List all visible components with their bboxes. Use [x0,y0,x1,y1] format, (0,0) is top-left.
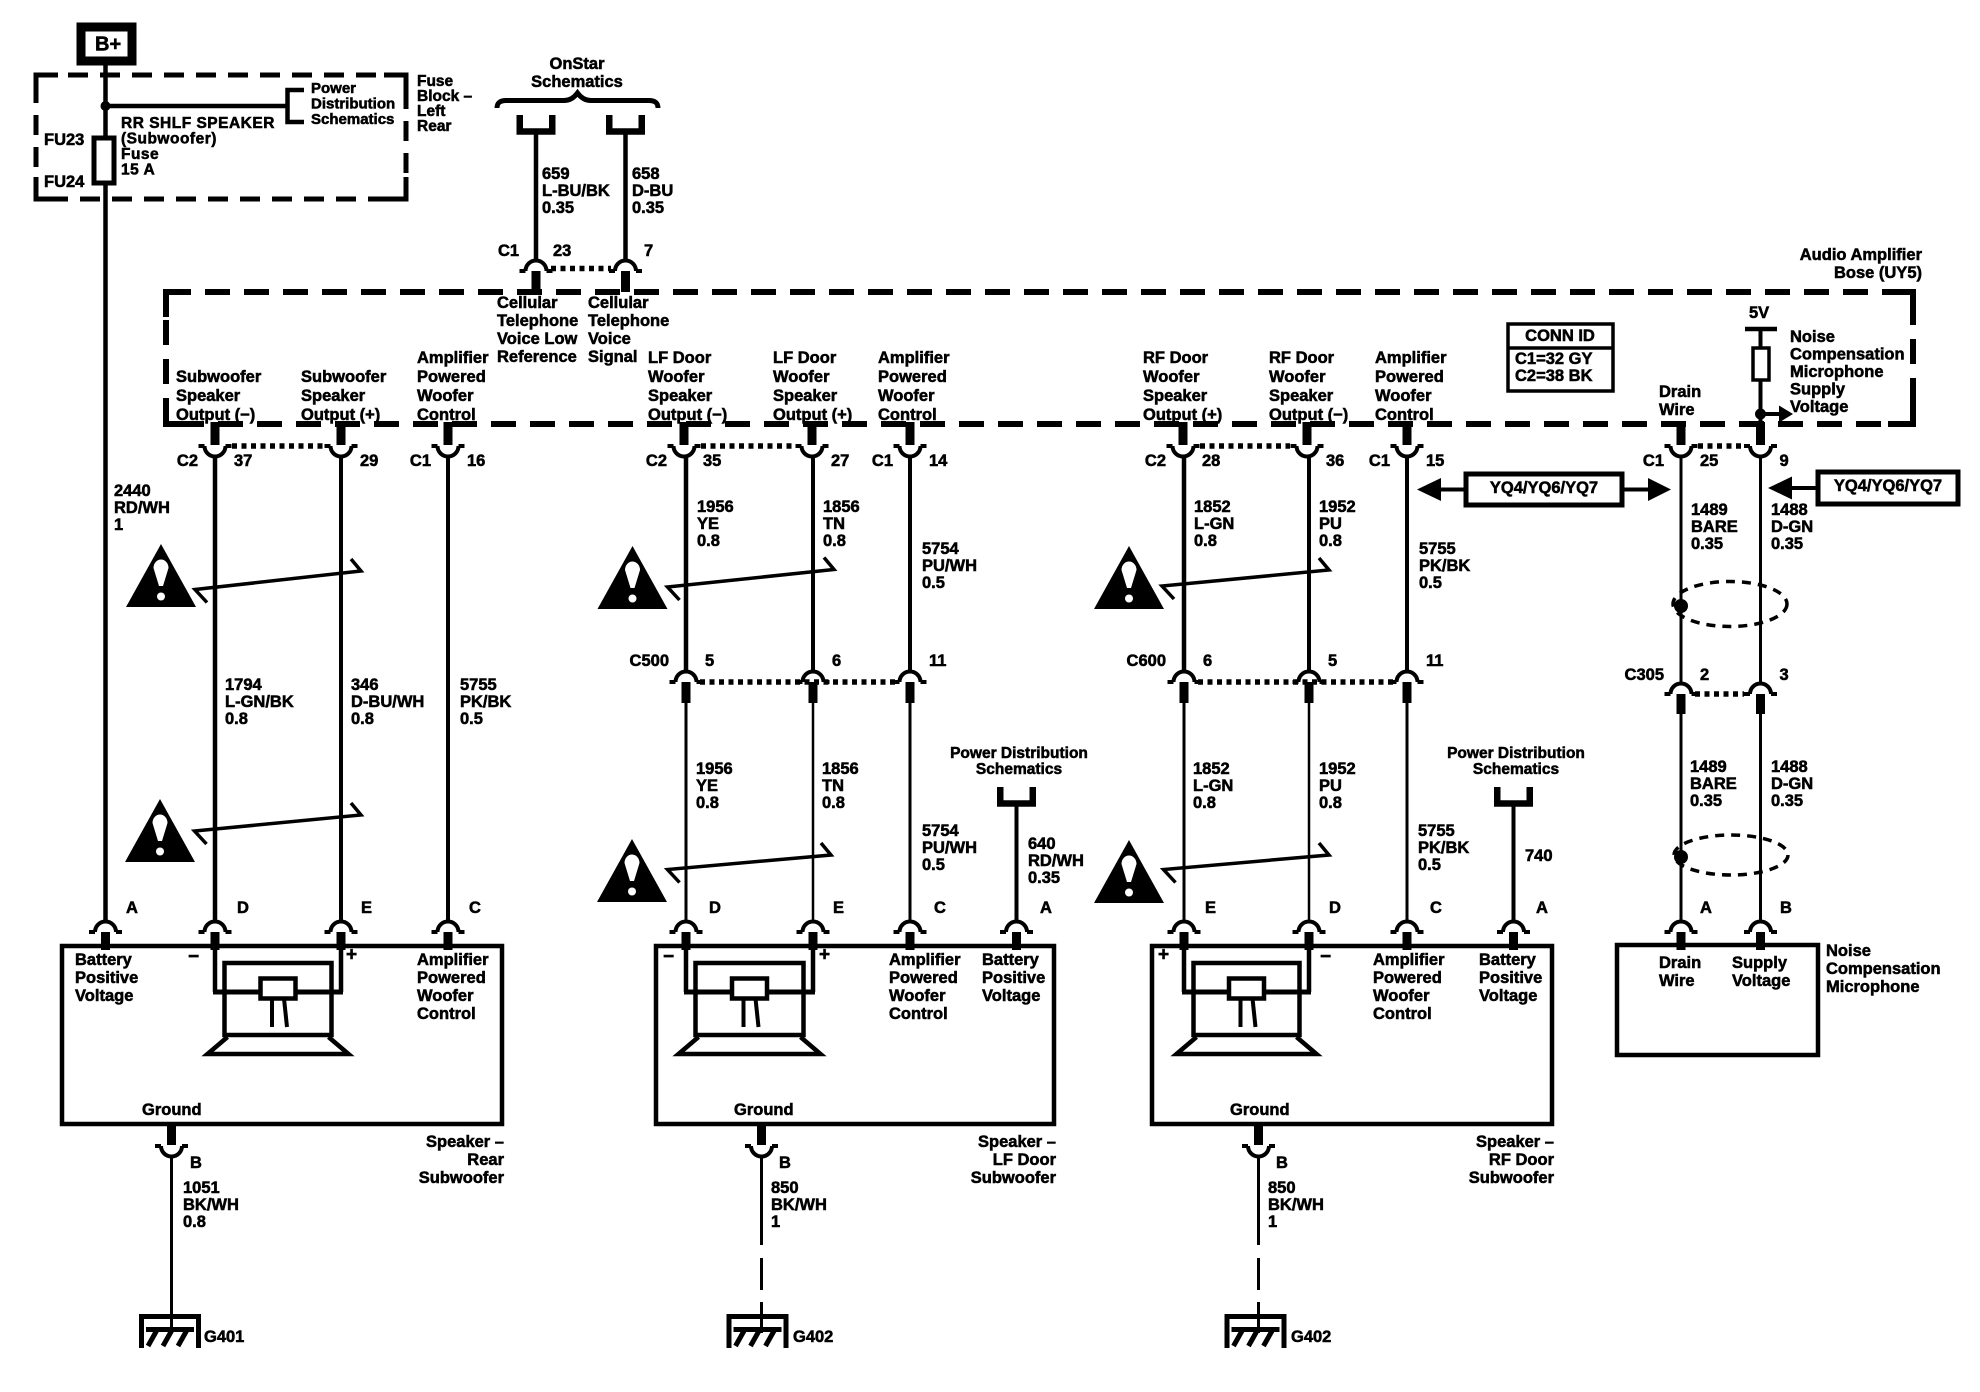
svg-text:Distribution: Distribution [311,95,395,112]
svg-text:Power: Power [311,80,356,97]
connector pin C at x1407 [1391,922,1424,932]
svg-text:Powered: Powered [878,368,947,386]
connector pin B rear ground [167,1124,176,1145]
svg-text:RR SHLF SPEAKER: RR SHLF SPEAKER [121,115,275,132]
junction dot drain upper [1674,599,1688,613]
wire C600-6 to speaker E [1183,703,1186,920]
connector pin 9 below amplifier [1756,422,1765,445]
svg-text:Woofer: Woofer [878,387,935,405]
svg-text:Voice Low: Voice Low [497,330,578,348]
svg-text:Voltage: Voltage [982,987,1040,1005]
svg-text:1794: 1794 [225,676,263,694]
wire 28 to C600-6 [1182,457,1187,672]
svg-text:Wire: Wire [1659,972,1695,990]
svg-text:0.5: 0.5 [1419,574,1442,592]
svg-text:Battery: Battery [75,951,133,969]
svg-text:1: 1 [1268,1213,1277,1231]
svg-text:D: D [1329,899,1341,917]
svg-text:0.8: 0.8 [697,532,720,550]
svg-text:640: 640 [1028,835,1056,853]
svg-text:1956: 1956 [697,498,734,516]
svg-text:−: − [663,947,674,968]
connector pin 15 below amplifier [1403,422,1412,445]
connector pin D at x215 [199,922,232,932]
connector pin 27 below amplifier [808,422,817,445]
svg-text:D-BU/WH: D-BU/WH [351,693,424,711]
connector pin A at x1513 [1497,922,1530,932]
svg-text:0.8: 0.8 [823,532,846,550]
ground G401 [142,1317,199,1349]
connector C305 pin 2 [1665,684,1698,695]
wire 29 to E [339,457,343,921]
svg-text:Speaker –: Speaker – [978,1133,1056,1151]
svg-text:Positive: Positive [982,969,1045,987]
svg-text:Output (−): Output (−) [176,406,255,424]
svg-text:Powered: Powered [1375,368,1444,386]
svg-text:Subwoofer: Subwoofer [971,1169,1057,1187]
svg-text:1952: 1952 [1319,498,1356,516]
svg-text:L-GN: L-GN [1194,515,1234,533]
wire C500-11 to speaker C [909,703,912,920]
warning triangle 1 [126,544,196,607]
connector pin 35 below amplifier [680,422,689,445]
svg-text:6: 6 [832,652,841,670]
svg-text:Output (+): Output (+) [773,406,852,424]
shield ellipse upper [1673,582,1787,627]
svg-text:1952: 1952 [1319,760,1356,778]
svg-text:E: E [361,899,372,917]
connector link dashes C1 25-9 [1698,443,1744,449]
svg-text:0.5: 0.5 [922,856,945,874]
off-page terminal power distribution RF [1497,787,1530,804]
svg-text:Signal: Signal [588,348,638,366]
connector pin 28 below amplifier [1179,422,1188,445]
wire 740 [1512,803,1516,920]
svg-text:C1: C1 [410,452,431,470]
connector C600 pin 6 [1168,672,1201,682]
connector link dashes C305 [1695,691,1744,697]
CONN ID table [1508,324,1613,391]
svg-text:LF Door: LF Door [993,1151,1057,1169]
svg-text:7: 7 [644,242,653,260]
svg-text:1489: 1489 [1691,501,1728,519]
svg-text:G401: G401 [204,1328,244,1346]
svg-text:Schematics: Schematics [976,761,1062,778]
svg-text:2: 2 [1700,666,1709,684]
svg-text:D: D [237,899,249,917]
connector pin B RF ground [1254,1124,1263,1145]
svg-text:Bose (UY5): Bose (UY5) [1834,264,1922,282]
svg-text:0.35: 0.35 [1771,535,1803,553]
svg-text:Drain: Drain [1659,383,1701,401]
wire 850 BK/WH (LF) [760,1157,763,1245]
svg-text:C305: C305 [1625,666,1664,684]
arrow YQ box1 right [1622,488,1650,492]
wire 659 L-BU/BK [534,131,539,259]
off-page reference bracket Power Distribution [288,90,305,122]
svg-text:Rear: Rear [467,1151,504,1169]
svg-text:1856: 1856 [822,760,859,778]
ground G402 (RF) [1227,1317,1284,1349]
connector pin D at x1309 [1293,922,1326,932]
svg-text:0.8: 0.8 [351,710,374,728]
wire 14 to C500-11 [908,457,912,672]
svg-text:1852: 1852 [1194,498,1231,516]
svg-text:BK/WH: BK/WH [1268,1196,1324,1214]
svg-text:L-GN: L-GN [1193,777,1233,795]
wire 16 to C [446,457,450,921]
svg-text:Ground: Ground [142,1101,202,1119]
svg-text:RF Door: RF Door [1489,1151,1555,1169]
svg-text:Voltage: Voltage [1479,987,1537,1005]
svg-text:Output (+): Output (+) [301,406,380,424]
svg-text:C1=32 GY: C1=32 GY [1515,350,1593,368]
audio amplifier Bose UY5 dashed box [166,292,1913,424]
junction dot supply voltage [1755,409,1766,420]
svg-text:Voice: Voice [588,330,631,348]
svg-text:Amplifier: Amplifier [1373,951,1445,969]
svg-text:C2=38 BK: C2=38 BK [1515,367,1593,385]
svg-text:0.35: 0.35 [1771,792,1803,810]
speaker box RF door subwoofer [1152,946,1552,1124]
connector pin A at x1681 [1665,922,1698,932]
speaker symbol LF door [684,946,689,992]
svg-text:−: − [1320,947,1331,968]
shield ellipse lower [1674,835,1788,875]
svg-text:BARE: BARE [1691,518,1738,536]
wire 35 to C500-5 [684,457,689,672]
svg-text:0.8: 0.8 [1194,532,1217,550]
svg-text:L-BU/BK: L-BU/BK [542,182,610,200]
svg-text:Speaker –: Speaker – [426,1133,504,1151]
svg-text:0.5: 0.5 [1418,856,1441,874]
svg-text:0.8: 0.8 [1319,532,1342,550]
svg-text:Voltage: Voltage [75,987,133,1005]
svg-text:YE: YE [696,777,718,795]
connector link dashes C2 28-36 [1200,443,1290,449]
svg-text:Speaker: Speaker [648,387,713,405]
svg-text:1488: 1488 [1771,758,1808,776]
wire 5V to resistor [1759,329,1763,348]
connector pin B LF ground [757,1124,766,1145]
connector pin A at x105 [89,922,122,932]
svg-text:25: 25 [1700,452,1718,470]
svg-text:Woofer: Woofer [417,387,474,405]
svg-text:Audio Amplifier: Audio Amplifier [1800,246,1923,264]
svg-text:Ground: Ground [734,1101,794,1119]
svg-text:0.8: 0.8 [225,710,248,728]
svg-text:14: 14 [929,452,948,470]
svg-text:E: E [833,899,844,917]
wire C500-6 to speaker E [812,703,815,920]
svg-text:Woofer: Woofer [773,368,830,386]
svg-text:Speaker –: Speaker – [1476,1133,1554,1151]
svg-text:Amplifier: Amplifier [889,951,961,969]
svg-text:Schematics: Schematics [531,73,623,91]
svg-text:Woofer: Woofer [1143,368,1200,386]
svg-text:Woofer: Woofer [1269,368,1326,386]
svg-text:Supply: Supply [1790,380,1846,398]
svg-text:5: 5 [705,652,714,670]
svg-text:TN: TN [822,777,844,795]
svg-text:FU23: FU23 [44,131,84,149]
svg-text:Powered: Powered [417,368,486,386]
wire 640 RD/WH [1015,803,1019,920]
svg-text:OnStar: OnStar [549,55,605,73]
svg-text:Subwoofer: Subwoofer [301,368,387,386]
svg-text:9: 9 [1780,452,1789,470]
warning triangle 4 [597,839,667,902]
svg-text:Cellular: Cellular [588,294,649,312]
pointer arrow 2 [195,803,362,844]
svg-text:Power Distribution: Power Distribution [1447,745,1585,762]
svg-text:0.35: 0.35 [632,199,664,217]
svg-text:C2: C2 [646,452,667,470]
warning triangle 5 [1094,546,1164,609]
svg-text:Schematics: Schematics [1473,761,1559,778]
svg-text:G402: G402 [1291,1328,1331,1346]
wire drain 1489 lower [1680,714,1683,920]
svg-text:Voltage: Voltage [1790,398,1848,416]
svg-text:15 A: 15 A [121,162,155,179]
svg-text:+: + [346,945,357,966]
svg-text:PU: PU [1319,515,1342,533]
svg-text:−: − [188,947,199,968]
svg-text:C1: C1 [872,452,893,470]
connector link dashes C600 [1198,679,1394,685]
svg-text:Amplifier: Amplifier [1375,349,1447,367]
svg-text:5754: 5754 [922,540,960,558]
svg-text:PK/BK: PK/BK [1419,557,1470,575]
svg-text:FU24: FU24 [44,173,85,191]
svg-text:Powered: Powered [417,969,486,987]
svg-text:11: 11 [1426,652,1443,670]
svg-text:29: 29 [360,452,378,470]
YQ4/YQ6/YQ7 box 1 [1466,474,1622,505]
svg-text:Control: Control [889,1005,948,1023]
connector pin 25 below amplifier [1677,422,1686,445]
ground G402 (LF) [729,1317,786,1349]
svg-text:Amplifier: Amplifier [878,349,950,367]
YQ4/YQ6/YQ7 box 2 [1818,472,1958,504]
wire 37 to D [213,457,218,921]
wire 36 to C600-5 [1307,457,1311,672]
svg-text:Speaker: Speaker [773,387,838,405]
svg-text:Output (−): Output (−) [648,406,727,424]
svg-text:D-BU: D-BU [632,182,673,200]
svg-text:Wire: Wire [1659,401,1695,419]
wire 27 to C500-6 [811,457,815,672]
pointer arrow 5 [1162,558,1329,599]
arrow to Supply Voltage label [1761,412,1781,416]
connector C600 pin 11 [1391,672,1424,682]
connector pin 14 below amplifier [906,422,915,445]
svg-text:Speaker: Speaker [1269,387,1334,405]
wire 15 to C600-11 [1405,457,1409,672]
svg-text:PU/WH: PU/WH [922,557,977,575]
svg-text:0.8: 0.8 [1193,794,1216,812]
svg-text:35: 35 [703,452,721,470]
svg-text:B: B [190,1154,202,1172]
svg-text:346: 346 [351,676,379,694]
svg-text:Subwoofer: Subwoofer [419,1169,505,1187]
wire C500-5 to speaker D [685,703,688,920]
pointer arrow 1 [195,559,361,603]
svg-text:RD/WH: RD/WH [1028,852,1084,870]
svg-text:0.35: 0.35 [1028,869,1060,887]
svg-text:TN: TN [823,515,845,533]
svg-text:1: 1 [771,1213,780,1231]
connector pin 29 below amplifier [337,422,346,445]
connector pin D at x686 [670,922,703,932]
connector pin 37 below amplifier [211,422,220,445]
pointer arrow 4 [668,843,832,883]
svg-text:D-GN: D-GN [1771,775,1813,793]
svg-text:PU: PU [1319,777,1342,795]
svg-text:Speaker: Speaker [1143,387,1208,405]
wire 1051 BK/WH [170,1157,173,1330]
wire C600-11 to speaker C [1406,703,1409,920]
svg-text:28: 28 [1202,452,1220,470]
wire supply 1488 upper [1759,457,1762,683]
svg-text:Control: Control [1373,1005,1432,1023]
svg-text:659: 659 [542,165,570,183]
svg-text:36: 36 [1326,452,1344,470]
connector link dashes C500 [700,679,897,685]
svg-text:C1: C1 [498,242,519,260]
connector pin B at x1760 [1744,922,1777,932]
svg-text:37: 37 [234,452,252,470]
svg-text:Control: Control [878,406,937,424]
svg-text:LF Door: LF Door [773,349,837,367]
fuse block dashed boundary [36,75,406,199]
svg-text:+: + [1158,945,1169,966]
svg-text:(Subwoofer): (Subwoofer) [121,131,217,148]
svg-text:C500: C500 [630,652,669,670]
svg-text:Woofer: Woofer [1375,387,1432,405]
svg-text:BK/WH: BK/WH [771,1196,827,1214]
svg-text:Woofer: Woofer [648,368,705,386]
arrow YQ box1 left [1439,488,1466,492]
svg-text:Positive: Positive [75,969,138,987]
warning triangle 6 [1094,840,1164,903]
noise compensation microphone box [1617,945,1818,1055]
svg-text:Schematics: Schematics [311,111,394,128]
wire 850 BK/WH (RF) [1257,1157,1260,1245]
svg-text:0.8: 0.8 [822,794,845,812]
svg-text:C: C [469,899,481,917]
svg-text:16: 16 [467,452,485,470]
wire C600-5 to speaker D [1308,703,1311,920]
connector C500 pin 11 [894,672,927,682]
svg-text:Output (+): Output (+) [1143,406,1222,424]
svg-text:Battery: Battery [982,951,1040,969]
svg-text:740: 740 [1525,847,1553,865]
connector C600 pin 5 [1293,672,1326,682]
svg-text:RF Door: RF Door [1143,349,1209,367]
svg-text:0.5: 0.5 [922,574,945,592]
svg-text:Supply: Supply [1732,954,1788,972]
connector pin 16 below amplifier [444,422,453,445]
svg-text:6: 6 [1203,652,1212,670]
svg-text:Microphone: Microphone [1790,363,1884,381]
svg-text:D-GN: D-GN [1771,518,1813,536]
svg-text:+: + [819,945,830,966]
svg-text:C: C [1430,899,1442,917]
svg-text:Speaker: Speaker [176,387,241,405]
svg-text:850: 850 [1268,1179,1296,1197]
connector pin E at x341 [325,922,358,932]
svg-text:RF Door: RF Door [1269,349,1335,367]
svg-text:Telephone: Telephone [588,312,669,330]
connector C1 pin 23 [520,261,553,272]
svg-text:BARE: BARE [1690,775,1737,793]
svg-text:5755: 5755 [460,676,497,694]
svg-text:D: D [709,899,721,917]
svg-text:YQ4/YQ6/YQ7: YQ4/YQ6/YQ7 [1834,477,1942,495]
svg-text:1489: 1489 [1690,758,1727,776]
svg-text:Ground: Ground [1230,1101,1290,1119]
svg-text:Fuse: Fuse [121,146,159,163]
svg-text:1852: 1852 [1193,760,1230,778]
svg-text:PK/BK: PK/BK [1418,839,1469,857]
svg-text:Powered: Powered [1373,969,1442,987]
svg-text:Telephone: Telephone [497,312,578,330]
svg-text:Drain: Drain [1659,954,1701,972]
connector pin E at x813 [797,922,830,932]
svg-text:5755: 5755 [1418,822,1455,840]
svg-text:Woofer: Woofer [889,987,946,1005]
svg-text:Control: Control [417,1005,476,1023]
svg-text:Rear: Rear [417,118,451,135]
svg-text:C1: C1 [1369,452,1390,470]
connector link dashes C2 35-27 [701,443,795,449]
svg-text:C600: C600 [1127,652,1166,670]
svg-text:1: 1 [114,516,123,534]
svg-text:1856: 1856 [823,498,860,516]
svg-text:11: 11 [929,652,946,670]
connector C500 pin 6 [797,672,830,682]
svg-text:A: A [1040,899,1052,917]
svg-text:Amplifier: Amplifier [417,951,489,969]
wire battery positive feed 2440 [103,61,108,920]
svg-text:1051: 1051 [183,1179,220,1197]
svg-text:850: 850 [771,1179,799,1197]
svg-text:YQ4/YQ6/YQ7: YQ4/YQ6/YQ7 [1490,479,1598,497]
wire jumper to power distribution reference [106,104,289,109]
svg-text:Subwoofer: Subwoofer [1469,1169,1555,1187]
connector C1 pin 7 [609,261,642,272]
svg-text:LF Door: LF Door [648,349,712,367]
svg-text:2440: 2440 [114,482,151,500]
speaker symbol RF door [1182,946,1187,992]
svg-text:Powered: Powered [889,969,958,987]
connector pin A at x1016 [1000,922,1033,932]
brace OnStar [497,93,658,108]
svg-text:15: 15 [1426,452,1444,470]
svg-text:G402: G402 [793,1328,833,1346]
svg-text:Microphone: Microphone [1826,978,1920,996]
off-page terminal OnStar voice signal [609,115,642,132]
svg-text:Compensation: Compensation [1790,345,1905,363]
svg-text:1956: 1956 [696,760,733,778]
warning triangle 2 [125,799,195,862]
svg-text:C2: C2 [177,452,198,470]
wire resistor to pin 9 [1759,380,1763,426]
svg-text:Speaker: Speaker [301,387,366,405]
svg-text:0.35: 0.35 [1690,792,1722,810]
connector pin E at x1184 [1168,922,1201,932]
